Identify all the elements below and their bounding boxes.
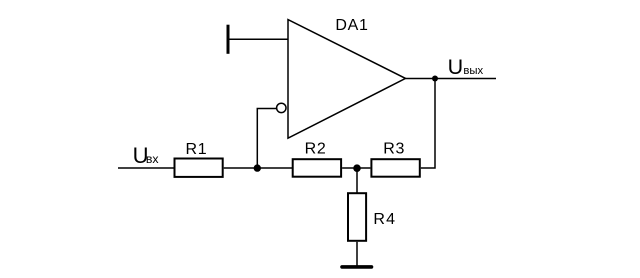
junction node A: [254, 164, 261, 171]
resistor R2: [293, 159, 341, 177]
wire node A to R2: [257, 167, 292, 169]
svg-text:R4: R4: [373, 211, 396, 228]
ground: [342, 265, 372, 269]
wire input to R1: [118, 167, 174, 169]
resistor R1: [175, 159, 223, 177]
junction output node: [432, 76, 438, 82]
op-amp DA1: [288, 20, 406, 139]
svg-text:R3: R3: [383, 141, 405, 158]
resistor R3: [371, 159, 419, 177]
wire output: [406, 78, 497, 80]
svg-text:R1: R1: [185, 141, 207, 158]
svg-text:R2: R2: [305, 141, 327, 158]
terminal stub (non-inverting input): [227, 25, 230, 54]
wire feedback from output node down to R3: [421, 79, 435, 169]
wire stub to op-amp: [228, 38, 288, 40]
resistor R4: [348, 193, 366, 241]
wire node B down to R4: [356, 168, 358, 193]
wire R2 to node B: [342, 167, 357, 169]
inverting input bubble: [277, 103, 286, 112]
junction node B: [353, 164, 361, 172]
wire R1 to node A: [224, 167, 258, 169]
wire R4 to ground: [356, 242, 358, 266]
wire node B to R3: [357, 167, 370, 169]
wire node A up to inverting input: [257, 109, 276, 169]
svg-text:DA1: DA1: [335, 17, 368, 34]
